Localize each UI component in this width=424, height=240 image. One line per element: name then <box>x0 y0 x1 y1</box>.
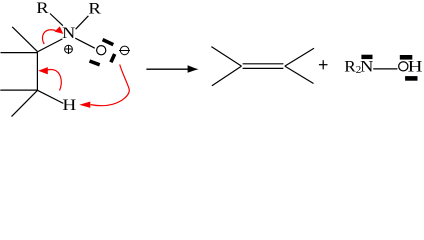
bond C2 methyl left <box>1 52 38 54</box>
bond C2 methyl up-left <box>12 27 37 52</box>
bond C2-C3 <box>36 52 38 90</box>
arrowhead to N <box>55 26 64 34</box>
svg-text:R: R <box>344 58 356 75</box>
curved arrow from C-H bond to C-C bond <box>47 69 61 90</box>
bond N-O <box>75 38 95 48</box>
arrowhead to H <box>79 102 90 108</box>
charge minus on O <box>119 46 130 55</box>
bond N-C2 <box>37 39 62 52</box>
product atom O (drawn as circle) <box>399 62 408 71</box>
bond R1-N <box>50 14 63 26</box>
lone pair bar below product O <box>405 76 417 81</box>
svg-text:N: N <box>360 58 374 75</box>
plus sign <box>319 60 328 69</box>
arrowhead to C-C bond <box>38 67 48 74</box>
lone pair bar above product O <box>400 55 413 60</box>
reaction arrowhead <box>188 65 199 73</box>
bond C3 methyl down-left <box>12 90 38 116</box>
bond R2-N <box>76 16 89 29</box>
alkene double bond top line <box>243 63 284 65</box>
alkene methyl up-right <box>285 48 314 66</box>
svg-text:R: R <box>88 1 101 18</box>
bond C3-H <box>38 90 64 103</box>
alkene double bond bottom line <box>243 67 284 69</box>
lone pair bar O bottom-left <box>90 61 100 65</box>
svg-text:N: N <box>62 25 76 42</box>
curved arrow from O lone pair to H <box>91 65 130 106</box>
svg-text:R: R <box>36 0 49 17</box>
charge plus on N <box>65 45 73 54</box>
lone pair bar O bottom-right <box>111 54 115 62</box>
reaction arrow <box>146 68 190 70</box>
alkene methyl down-left <box>212 66 242 86</box>
alkene methyl up-left <box>211 47 241 67</box>
svg-text:H: H <box>62 97 76 114</box>
curved arrow from C-N bond to N <box>42 30 55 44</box>
svg-text:H: H <box>408 59 423 76</box>
lone pair bar O top-right <box>103 40 114 45</box>
lone pair bar above product N <box>361 55 372 59</box>
bond N-O product <box>373 68 397 70</box>
alkene methyl down-right <box>285 66 314 83</box>
bond C3 methyl left <box>0 89 37 91</box>
atom label O1 (drawn as circle) <box>97 46 106 55</box>
